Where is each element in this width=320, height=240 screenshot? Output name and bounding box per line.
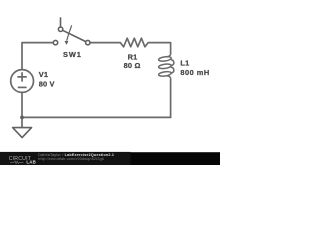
svg-text:80 V: 80 V: [39, 79, 55, 88]
svg-text:SW1: SW1: [63, 50, 82, 59]
ground: [13, 128, 32, 138]
wire right vertical lower: [170, 80, 172, 117]
wire right vertical upper: [148, 43, 170, 54]
resistor R1: [120, 38, 148, 47]
voltage source V1: [11, 70, 34, 93]
switch SW1 top stub: [60, 17, 62, 27]
switch SW1 top terminal: [58, 27, 62, 31]
wire top-left horizontal: [22, 43, 53, 70]
svg-text:V1: V1: [39, 70, 48, 79]
switch SW1 lever: [63, 30, 86, 41]
switch SW1 right terminal: [86, 40, 90, 44]
wire switch to resistor: [90, 42, 120, 44]
junction dot: [20, 116, 24, 120]
switch SW1 left terminal: [53, 40, 57, 44]
wire left vertical lower: [21, 92, 23, 127]
svg-text:800 mH: 800 mH: [180, 68, 209, 77]
svg-text:80 Ω: 80 Ω: [124, 61, 141, 70]
wire bottom: [22, 116, 171, 118]
footer bar: [0, 152, 131, 165]
inductor L1 coil: [158, 53, 174, 80]
svg-text:L1: L1: [180, 59, 189, 68]
CircuitLab logo LAB row: [10, 161, 24, 164]
switch SW1: [53, 17, 90, 45]
svg-text:LAB: LAB: [26, 160, 36, 165]
switch SW1 action arrow: [67, 25, 72, 41]
svg-text:http://circuitlab.com/c93dwqn8: http://circuitlab.com/c93dwqn82t3g6: [38, 157, 104, 161]
